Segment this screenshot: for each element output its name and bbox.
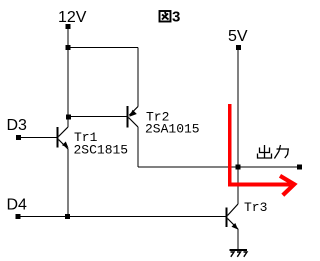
svg-text:D4: D4 xyxy=(7,197,28,214)
svg-text:5V: 5V xyxy=(228,28,248,45)
svg-text:D3: D3 xyxy=(7,117,28,134)
svg-text:12V: 12V xyxy=(58,9,87,26)
svg-text:2SA1015: 2SA1015 xyxy=(145,122,200,137)
svg-text:3: 3 xyxy=(172,9,180,26)
svg-text:Tr3: Tr3 xyxy=(244,200,267,215)
svg-text:2SC1815: 2SC1815 xyxy=(74,143,129,158)
